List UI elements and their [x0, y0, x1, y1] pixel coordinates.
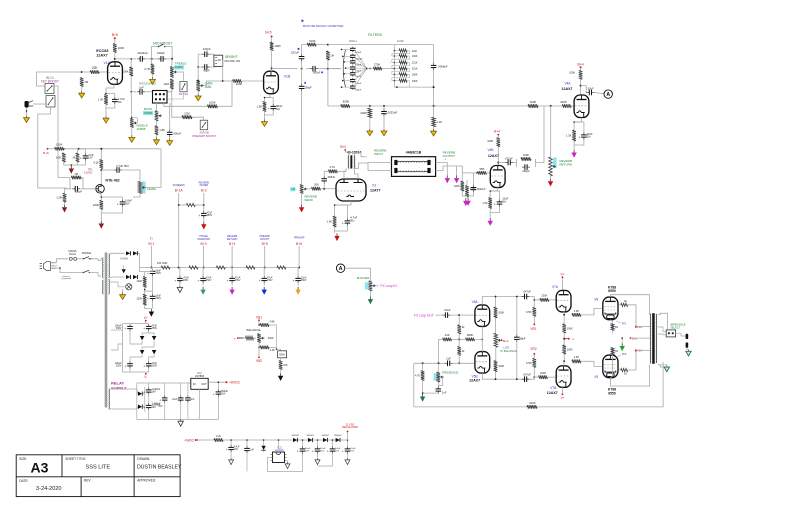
wire low ladder loop 111K: [392, 51, 410, 56]
wire bias mid wires4: [142, 341, 154, 350]
note marker (blue dot) 250pF: [304, 82, 306, 84]
wire 1.5K to V8 grid: [581, 308, 602, 315]
junction clk c: [263, 439, 265, 441]
resistor 200K bus shunt: [368, 108, 372, 118]
svg-text:220K: 220K: [560, 100, 567, 104]
ground (dark red) 2.2M: [64, 205, 66, 208]
wire cathodes link V5: [481, 327, 483, 352]
junction low ladder 201K: [394, 68, 396, 70]
svg-text:.02uF: .02uF: [587, 86, 594, 90]
wire tank out lower: [436, 166, 457, 171]
wire dropper left: [179, 204, 187, 206]
wire slope from plate wire: [130, 59, 132, 67]
resistor 100K plate V4B: [497, 138, 501, 147]
svg-text:F500MA: F500MA: [82, 252, 92, 255]
wire filters-in down to bus: [327, 69, 329, 106]
rectifier diode D4: [133, 275, 137, 279]
wire rock/jazz to connector: [145, 91, 152, 93]
capacitor 10uF doubler #1: [302, 446, 304, 449]
wire V9 screen: [619, 369, 621, 371]
capacitor 68uF cathode V1B: [272, 104, 274, 107]
junction doubler #3: [332, 439, 334, 441]
wire 2.2M hang: [65, 189, 71, 193]
svg-text:v-: v-: [572, 337, 575, 341]
ground (teal arrow) filter cap B+3 (.47uF): [202, 287, 204, 290]
wire bias mid wires6: [130, 355, 142, 361]
wire V8 plate to OT: [610, 295, 649, 315]
wire plate res V5B: [495, 372, 497, 380]
svg-text:22M: 22M: [184, 111, 190, 115]
wire high fan right 500pF: [354, 67, 367, 69]
wire plate res V5A: [495, 297, 497, 308]
resistor bus B1-B3: [189, 266, 198, 269]
resistor 100K plate V1B: [270, 42, 274, 51]
svg-text:PRESENCE: PRESENCE: [442, 370, 459, 374]
capacitor 10uF doubler #2: [317, 446, 319, 449]
resistor 2.2M fet gate leak: [63, 193, 67, 202]
svg-text:A: A: [606, 92, 610, 98]
wire ic2 top feed: [278, 440, 280, 449]
wire loop up to diode row: [302, 454, 304, 472]
svg-text:SUPPLY: SUPPLY: [111, 385, 127, 390]
wire out to V4B network: [457, 166, 477, 173]
svg-text:250V: 250V: [152, 364, 158, 367]
wire top cap to VR1: [530, 297, 534, 308]
svg-text:50V: 50V: [125, 202, 130, 205]
svg-text:16V: 16V: [305, 451, 309, 453]
svg-text:340pF: 340pF: [157, 51, 165, 55]
wire relay cap e: [187, 383, 189, 395]
capacitor 140pF high filter: [352, 71, 354, 73]
reverb tank 4AB3C1B: [392, 157, 436, 177]
wire primary top lead: [101, 258, 103, 261]
wire mid node: [145, 276, 153, 291]
svg-text:+: +: [147, 272, 149, 276]
wire 220K revout top: [466, 180, 468, 186]
svg-text:VR2: VR2: [530, 347, 536, 351]
svg-text:B+4: B+4: [578, 62, 584, 66]
wire bias cap c: [148, 324, 150, 325]
svg-text:SIZE:: SIZE:: [19, 457, 27, 461]
svg-text:B+4: B+4: [229, 242, 235, 246]
wire tank in stub: [367, 163, 369, 171]
junction grid node: [81, 71, 83, 73]
wire relay cap ab: [148, 395, 150, 403]
wire 9v rail b: [223, 439, 348, 441]
capacitor 1000uF 16V b: [148, 403, 150, 406]
capacitor 500pF high filter: [352, 65, 354, 67]
wire supply rail fet: [64, 148, 161, 150]
svg-text:10uF: 10uF: [172, 399, 178, 401]
junction ladder bottom a: [396, 86, 398, 88]
wire mix node down to return pot: [550, 106, 552, 153]
resistor 100K top rail: [307, 43, 316, 47]
svg-text:100K: 100K: [567, 327, 573, 330]
svg-text:16V: 16V: [152, 406, 157, 409]
wire bias xfmr feed: [111, 329, 123, 331]
node 21VDC: [347, 431, 349, 433]
wire relay cap cb: [164, 403, 166, 420]
wire high fan left 470pF: [342, 48, 352, 50]
resistor 4.7M: [151, 64, 155, 74]
svg-text:↑: ↑: [389, 61, 390, 64]
svg-text:150K: 150K: [56, 143, 63, 147]
wire relay winding bottom: [109, 407, 138, 409]
svg-text:B+2: B+2: [340, 145, 346, 149]
capacitor 220pF parallel: [522, 166, 525, 168]
svg-text:1.5K: 1.5K: [98, 98, 104, 102]
potentiometer BIAS BALANCE 200K: [257, 334, 261, 343]
diode bias D7: [140, 350, 145, 354]
svg-text:9.1K: 9.1K: [93, 161, 99, 165]
svg-text:100K: 100K: [529, 401, 536, 405]
potentiometer MIDDLE: [130, 119, 134, 128]
input jack J1: [25, 101, 29, 108]
wire up to .022uF: [301, 60, 303, 69]
svg-text:820K: 820K: [343, 100, 350, 104]
wire V1B cathode: [265, 94, 271, 102]
wire relay to FET gate line: [58, 98, 70, 178]
svg-text:1.5K: 1.5K: [566, 134, 572, 138]
svg-text:201K: 201K: [412, 68, 418, 71]
wire relay bypass path: [170, 103, 207, 106]
junction low ladder 221K: [394, 62, 396, 64]
power transformer T1 primary lower: [102, 280, 103, 294]
resistor 2k PI a: [457, 325, 461, 334]
svg-text:1.5K: 1.5K: [327, 220, 333, 224]
capacitor .022uF V4B out: [505, 162, 508, 164]
resistor 270K filters: [373, 67, 382, 71]
svg-text:SCREENS: SCREENS: [173, 184, 185, 187]
junction reverb mix: [550, 105, 552, 107]
resistor 4.8K balance a: [260, 323, 269, 327]
svg-text:NEUT: NEUT: [52, 265, 58, 267]
wire V4A cath loop: [574, 122, 584, 132]
wire cap clk bottom: [230, 452, 232, 458]
note marker (blue dot) top: [301, 20, 303, 22]
ground (white) relay supply: [180, 419, 182, 421]
svg-text:100K: 100K: [498, 311, 504, 315]
capacitor 1500pF high filter: [352, 54, 354, 56]
resistor 4.7K NFB: [421, 371, 425, 381]
note marker (blue dot) .005: [321, 71, 323, 73]
wire drain node: [100, 169, 102, 185]
wire relay to grid line: [37, 72, 82, 86]
svg-text:1M: 1M: [330, 53, 334, 57]
svg-text:100 20W: 100 20W: [157, 261, 168, 265]
svg-text:.0033uF: .0033uF: [387, 111, 398, 115]
wire bus to 1.2K: [433, 106, 435, 118]
wire bias bottom rail: [123, 361, 146, 372]
wire grid up to cap: [323, 183, 325, 189]
wire V3 plate2 up: [354, 168, 358, 179]
svg-text:1M: 1M: [291, 187, 296, 191]
resistor 820K bus: [341, 104, 350, 108]
wire VB1 down: [258, 321, 260, 325]
svg-text:+: +: [159, 399, 161, 403]
svg-text:DUSTIN BEASLEY: DUSTIN BEASLEY: [137, 465, 182, 471]
wire V9 plate to OT: [610, 365, 649, 386]
wire screen V9 to tap: [628, 350, 636, 370]
wire source bypass top: [101, 197, 122, 199]
ground (black) balance: [280, 373, 282, 376]
svg-text:.047uF: .047uF: [523, 372, 531, 376]
svg-text:4.7K: 4.7K: [415, 375, 420, 378]
capacitor 4.7uF 50V fet out: [114, 169, 117, 171]
potentiometer MASTER: [369, 281, 373, 291]
wire 220K to V1B grid: [242, 80, 264, 82]
resistor 24K PI: [443, 338, 452, 342]
resistor 50M balance: [246, 336, 254, 340]
junction reverb grid: [323, 188, 325, 190]
wire mid cap to right junction: [166, 58, 172, 60]
diode clock D11: [261, 446, 265, 450]
wire gnd stub: [150, 308, 152, 310]
svg-text:B+1A: B+1A: [175, 188, 184, 192]
wire VB2 down: [258, 347, 260, 356]
wire bright top wire: [198, 53, 201, 55]
svg-text:16V: 16V: [320, 451, 324, 453]
wire 100K to plate node: [114, 53, 116, 63]
svg-text:20K: 20K: [314, 182, 319, 186]
junction low ladder 180K: [394, 74, 396, 76]
resistor 100K tail b: [562, 345, 566, 354]
svg-text:4AB3C1B: 4AB3C1B: [406, 150, 422, 154]
svg-text:B+6: B+6: [112, 33, 118, 37]
connector impedance select: [666, 330, 675, 337]
capacitor 10uF doubler #4: [347, 446, 349, 449]
svg-text:220K: 220K: [530, 100, 537, 104]
wire signal through: [306, 68, 310, 70]
wire down to middle pot: [130, 92, 133, 118]
node B+1A upper: [635, 326, 637, 328]
wire fet source: [100, 193, 101, 200]
wire out cap top: [217, 382, 219, 389]
triode V7A (12AX7 driver): [556, 290, 571, 312]
diode bias D5: [140, 336, 145, 340]
wire OT sec bottom: [658, 365, 667, 367]
capacitor 560uF 16V out: [217, 389, 219, 392]
wire balance bottom: [495, 347, 497, 361]
svg-text:111K: 111K: [412, 50, 418, 53]
IC2 555 clock: [273, 452, 285, 463]
svg-text:50v: 50v: [118, 100, 123, 104]
resistor 1R cathode V8: [611, 324, 614, 331]
wire treble bottom to connector: [167, 89, 172, 92]
svg-text:250KB: 250KB: [144, 111, 153, 115]
svg-text:+6VDC: +6VDC: [229, 381, 241, 385]
junction filters in: [327, 68, 329, 70]
svg-text:B+4: B+4: [494, 129, 500, 133]
wire 100K to V4A plate: [580, 79, 582, 94]
resistor 1.5K cathode V3: [333, 216, 337, 227]
wire doubler cap bot 4: [347, 454, 349, 459]
wire V7B cathode out: [563, 361, 566, 366]
resistor 100K low filter: [399, 79, 407, 82]
junction drain: [100, 169, 102, 171]
wire doubler cap top #1: [302, 440, 304, 446]
triode V1B (12AX7): [264, 71, 279, 94]
svg-text:SELECT: SELECT: [670, 325, 681, 329]
wire 50M to pot: [254, 337, 257, 339]
junction B+4 on bus: [231, 267, 233, 269]
wire tank in lower: [368, 170, 392, 172]
resistor 1K screen V8: [621, 303, 628, 306]
resistor 1.8K: [155, 126, 159, 135]
svg-text:1K: 1K: [624, 372, 627, 376]
wire jack sleeve to ground: [26, 108, 28, 116]
junction gs bottom: [467, 195, 469, 197]
power transformer T1 heater winding: [109, 279, 110, 294]
svg-text:100K: 100K: [487, 139, 493, 143]
wire presence bottom wire: [423, 392, 439, 394]
svg-text:+: +: [297, 450, 299, 454]
junction bridge bottom: [516, 378, 518, 380]
svg-text:220pF: 220pF: [522, 169, 530, 173]
ground (magenta) V4B cathode: [489, 218, 491, 221]
wire cap to node A: [595, 93, 604, 94]
svg-text:.047uF: .047uF: [523, 290, 531, 294]
svg-text:1.5K: 1.5K: [574, 309, 580, 313]
ground (white) clk a: [230, 458, 232, 460]
wire bias left col: [122, 324, 124, 362]
wire nfb left: [413, 363, 415, 407]
resistor 8.2K fet filter: [62, 153, 66, 162]
wire gs gnd: [467, 196, 469, 198]
svg-text:+: +: [198, 214, 200, 218]
wire cap gs top: [473, 173, 475, 185]
svg-text:180K: 180K: [412, 74, 418, 77]
wire OT sec top: [658, 313, 668, 330]
output transformer T3 secondary: [655, 314, 658, 363]
triode V3 (12AT7 reverb driver): [336, 179, 366, 201]
svg-text:1uF: 1uF: [446, 357, 451, 361]
capacitor 4.7uF cathode V3: [346, 218, 348, 221]
junction doubler #4: [347, 439, 349, 441]
svg-text:V7A: V7A: [552, 285, 559, 289]
capacitor 1500uF 25V: [164, 395, 166, 398]
wire cap2 clk bottom: [246, 453, 248, 471]
wire relay2 down: [203, 130, 205, 133]
ground (yellow) below 1.2K: [433, 129, 435, 131]
svg-text:6550: 6550: [608, 289, 616, 293]
svg-text:+: +: [293, 279, 295, 283]
wire relay rect join2: [143, 406, 145, 408]
wire V1B cath loop: [265, 98, 274, 104]
svg-text:100KB: 100KB: [137, 127, 146, 131]
capacitor 1000uF 16V a: [148, 387, 150, 390]
wire plate to A cap: [581, 86, 587, 93]
wire cap a top: [145, 269, 153, 272]
potentiometer LEVEL: [142, 182, 146, 194]
capacitor 47uF 250V b: [148, 361, 150, 364]
value 250K bass: [143, 111, 153, 115]
svg-text:.0022uF: .0022uF: [137, 51, 148, 55]
wire low ladder left 221K: [394, 62, 398, 64]
relay RLY2B contact: [200, 120, 208, 130]
svg-text:RETURN: RETURN: [227, 238, 238, 241]
svg-text:220K: 220K: [523, 153, 529, 157]
svg-text:221K: 221K: [412, 62, 418, 65]
capacitor .068uF reverb: [323, 176, 325, 179]
pentode V8 (KT88/6550): [603, 297, 618, 320]
capacitor 4.7uF cathode bypass V1A: [114, 97, 116, 100]
svg-text:220K: 220K: [137, 298, 143, 301]
wire bias mid wires3: [142, 333, 149, 336]
svg-text:250pF: 250pF: [304, 85, 312, 89]
wire doubler cap top #4: [347, 440, 349, 446]
junction balance b: [258, 347, 260, 349]
node B+0: [114, 37, 116, 39]
wire B+5 drop to bus: [264, 246, 266, 268]
svg-text:INPUT: INPUT: [374, 152, 383, 156]
wire bias mid wires2: [149, 331, 154, 336]
svg-text:68pF: 68pF: [520, 336, 526, 340]
wire presence wiper loop: [438, 377, 444, 386]
resistor 1M shunt: [326, 51, 330, 60]
svg-text:V8: V8: [594, 297, 598, 301]
wire node A to master: [345, 268, 371, 281]
IC1 LM7806 regulator: [191, 378, 208, 389]
svg-text:FX Loop OUT: FX Loop OUT: [414, 313, 434, 317]
wire high fan left 500pF: [346, 67, 352, 69]
junction bottom presence: [438, 362, 440, 364]
wire high fan right 1500pF: [354, 56, 367, 68]
svg-text:+: +: [117, 203, 119, 207]
svg-text:PLUG: PLUG: [69, 253, 76, 256]
resistor bus B4-B5: [246, 266, 255, 269]
svg-text:A: A: [339, 266, 343, 272]
resistor 111K low filter: [399, 49, 407, 52]
svg-text:INVERTER: INVERTER: [197, 238, 210, 241]
capacitor 47uF 450V teal tap: [202, 276, 204, 279]
svg-text:REGULATED: REGULATED: [342, 425, 358, 429]
highlight presence pot: [434, 373, 437, 380]
svg-text:+: +: [227, 279, 229, 283]
wire high fan right 150pF: [354, 69, 367, 88]
wire diode clk top: [263, 440, 265, 446]
svg-text:V5A: V5A: [472, 300, 479, 304]
resistor 100K plate V5A: [494, 307, 498, 318]
wire relay left rail: [136, 383, 138, 419]
capacitor 47uF B+2: [203, 211, 205, 214]
svg-text:TP1: TP1: [622, 321, 627, 325]
wire low ladder loop 201K: [392, 69, 410, 75]
svg-text:68pF: 68pF: [203, 69, 210, 73]
svg-text:SSS LITE: SSS LITE: [86, 465, 111, 471]
junction source: [101, 196, 103, 198]
junction V5B grid: [458, 362, 460, 364]
wire cap to V5A grid: [451, 314, 475, 316]
wire bright bottom wire: [198, 66, 201, 68]
wire tail mid: [563, 333, 565, 345]
svg-text:1M: 1M: [84, 80, 89, 84]
wire V4B plate right: [498, 162, 505, 164]
capacitor 470pF high filter: [352, 47, 354, 49]
wire 220K to V7B: [548, 376, 557, 378]
wire 200K to gnd: [369, 118, 371, 128]
svg-text:8.2K: 8.2K: [56, 156, 62, 160]
resistor 20K reverb: [312, 187, 321, 191]
switch power SW1: [84, 257, 92, 259]
wire speaker sleeve: [687, 348, 689, 350]
wire relay rect join: [143, 393, 145, 395]
svg-text:100K: 100K: [412, 80, 418, 83]
junction low ladder 111K: [394, 50, 396, 52]
capacitor 10uF 700V a: [152, 269, 154, 272]
junction slope top: [130, 58, 132, 60]
ground (orange arrow) filter cap B+6: [297, 287, 299, 290]
